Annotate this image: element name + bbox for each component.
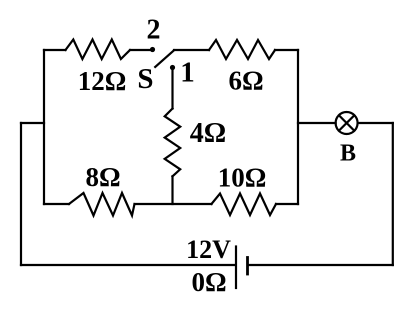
wire 12Ω to switch contact 2 [130,49,151,51]
svg-text:4Ω: 4Ω [190,118,226,149]
wire bottom horizontal right (battery to corner) [249,264,393,266]
resistor 6Ω zigzag [209,40,275,59]
svg-text:12V: 12V [186,235,231,264]
wire outer-right vertical [392,123,394,265]
wire outer-left vertical [20,123,22,265]
wire contact 1 down to 4Ω [171,70,173,109]
resistor 10Ω zigzag [212,194,277,216]
lamp B circle [336,112,358,134]
battery negative plate (short) [246,258,249,275]
wire 6Ω to top-right corner [275,49,298,51]
wire bottom row left (corner to 8Ω) [44,203,69,205]
switch S blade [155,50,174,67]
svg-text:10Ω: 10Ω [218,162,267,192]
svg-text:2: 2 [147,14,161,45]
wire bottom horizontal left (to battery) [21,264,235,266]
wire left stub horizontal [21,122,44,124]
svg-text:1: 1 [180,57,195,89]
lamp B cross stroke 2 [339,115,354,130]
svg-text:8Ω: 8Ω [85,162,120,192]
svg-text:S: S [137,63,153,95]
wire lamp branch right [358,122,393,124]
wire inner-right vertical [297,50,299,204]
lamp B cross stroke 1 [339,115,354,130]
wire 4Ω to bottom row node [171,176,173,204]
svg-text:0Ω: 0Ω [191,267,226,297]
node switch contact 1 [170,65,175,70]
wire 10Ω to inner-right corner [276,203,298,205]
svg-text:B: B [340,140,356,166]
node switch contact 2 [150,47,155,52]
wire top-left horizontal (corner to 12Ω) [44,49,66,51]
wire lamp branch left [298,122,336,124]
wire 8Ω to 10Ω (through node) [135,203,212,205]
svg-text:6Ω: 6Ω [228,66,263,96]
svg-text:12Ω: 12Ω [78,66,127,96]
resistor 8Ω zigzag [69,193,135,216]
wire switch pivot to 6Ω [174,49,209,51]
wire inner-left vertical [43,50,45,204]
resistor 4Ω vertical zigzag [165,109,181,177]
resistor 12Ω zigzag [66,40,131,60]
battery positive plate (long) [235,247,237,289]
